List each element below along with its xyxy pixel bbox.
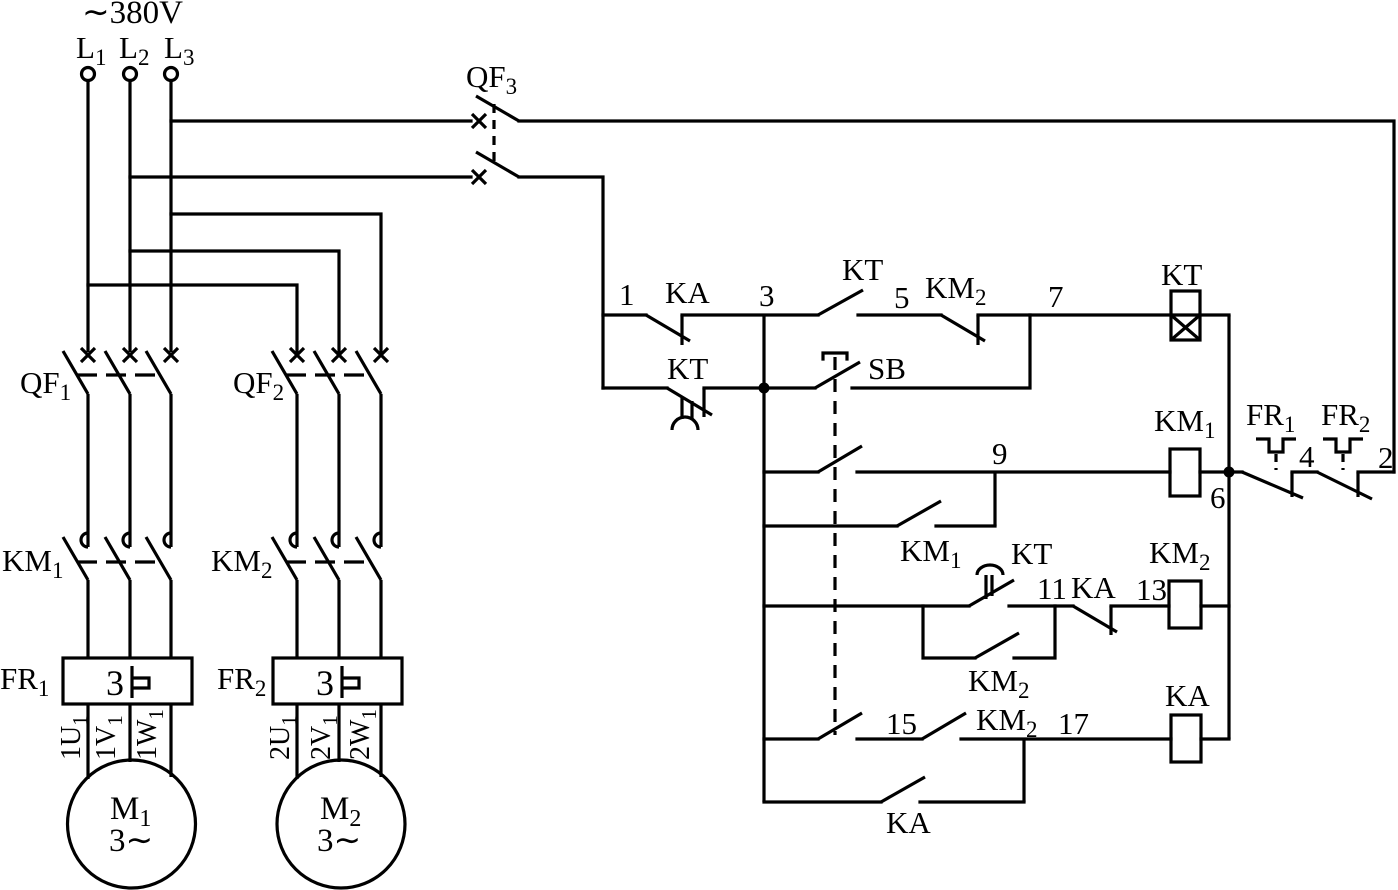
svg-text:3∼: 3∼ [109,823,153,859]
svg-text:3: 3 [759,278,775,313]
svg-text:3: 3 [106,663,124,703]
svg-text:KA: KA [665,275,710,310]
svg-text:KT: KT [1161,257,1202,292]
svg-text:5: 5 [894,280,910,315]
svg-text:15: 15 [886,706,917,741]
svg-text:11: 11 [1037,571,1067,606]
svg-text:KA: KA [1165,678,1210,713]
svg-text:1: 1 [619,277,635,312]
svg-text:KA: KA [886,805,931,840]
svg-text:13: 13 [1136,572,1167,607]
svg-text:∼380V: ∼380V [82,0,183,31]
svg-text:2: 2 [1378,440,1394,475]
svg-text:KT: KT [1011,536,1052,571]
svg-text:KA: KA [1071,570,1116,605]
svg-text:9: 9 [992,436,1008,471]
svg-text:4: 4 [1299,439,1315,474]
svg-text:17: 17 [1058,706,1089,741]
svg-text:7: 7 [1048,279,1064,314]
svg-text:KT: KT [842,252,883,287]
svg-text:3∼: 3∼ [317,823,361,859]
svg-text:3: 3 [316,663,334,703]
svg-text:KT: KT [667,351,708,386]
svg-text:SB: SB [868,351,906,386]
svg-text:6: 6 [1210,480,1226,515]
